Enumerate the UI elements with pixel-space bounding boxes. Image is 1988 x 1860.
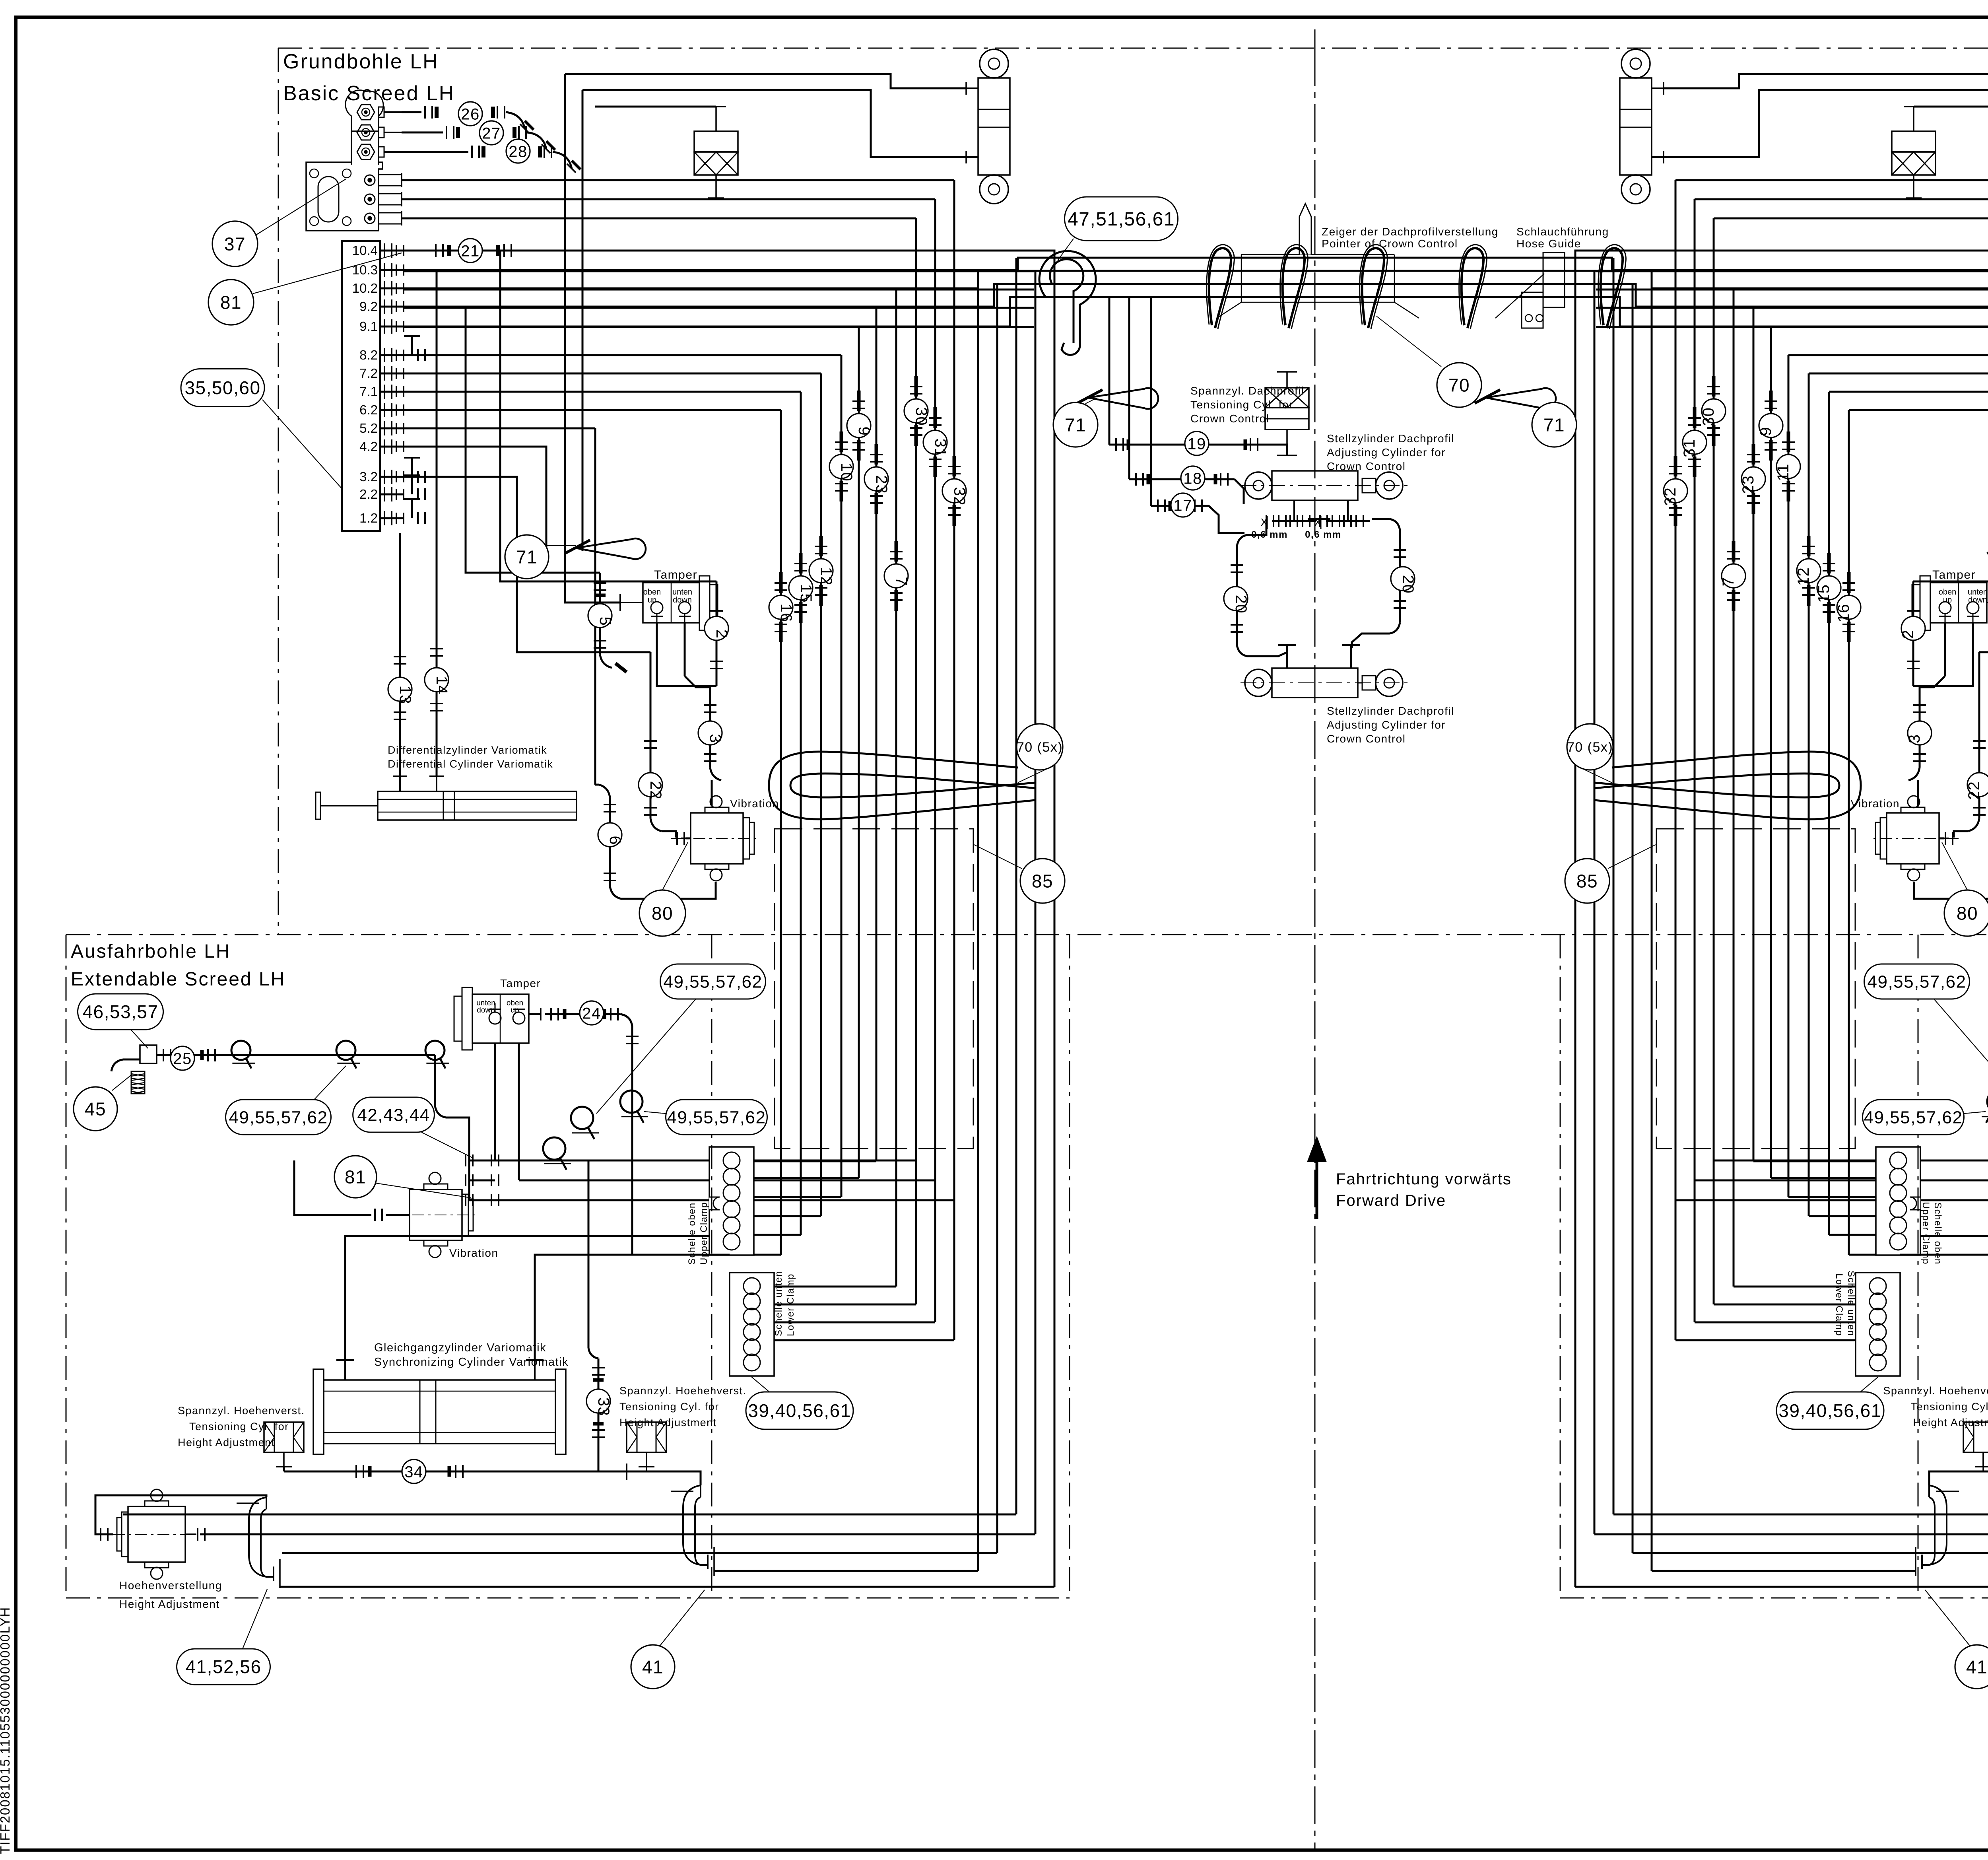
svg-text:Vibration: Vibration	[730, 797, 779, 810]
loop clamps	[543, 1137, 565, 1160]
callout 70	[1437, 363, 1481, 407]
callout 71 centre	[1053, 402, 1098, 447]
svg-text:70: 70	[1448, 375, 1470, 396]
svg-text:Spannzyl. Hoehenverst.: Spannzyl. Hoehenverst.	[1883, 1385, 1988, 1397]
callout 49,55,57,62 a	[226, 1100, 331, 1135]
svg-text:2: 2	[1899, 630, 1917, 639]
svg-text:Hose Guide: Hose Guide	[1516, 237, 1581, 250]
svg-text:32: 32	[1662, 487, 1679, 506]
svg-text:Upper Clamp: Upper Clamp	[1920, 1202, 1931, 1265]
svg-text:71: 71	[1543, 415, 1565, 435]
svg-text:Crown Control: Crown Control	[1190, 412, 1269, 425]
svg-text:23: 23	[873, 475, 890, 494]
svg-text:Tensioning Cyl. for: Tensioning Cyl. for	[189, 1421, 289, 1432]
svg-text:Spannzyl. Hoehenverst.: Spannzyl. Hoehenverst.	[178, 1405, 305, 1417]
callout 41	[631, 1645, 675, 1689]
Spannzyl. Hoehenverst. tensioning cylinder left	[264, 1422, 304, 1452]
svg-text:Upper Clamp: Upper Clamp	[699, 1202, 709, 1265]
callouts 26 27 28	[458, 102, 482, 126]
svg-text:4.2: 4.2	[359, 439, 378, 454]
svg-text:Tamper: Tamper	[500, 977, 541, 989]
dashed region 85 right	[1656, 829, 1855, 1149]
svg-text:49,55,57,62: 49,55,57,62	[667, 1108, 766, 1127]
svg-text:7.1: 7.1	[359, 384, 378, 399]
hose 5	[599, 573, 601, 654]
hose 33	[588, 1160, 590, 1348]
svg-text:up: up	[648, 596, 656, 604]
svg-text:3.2: 3.2	[359, 469, 378, 484]
hose fittings with callouts 16 15 12 10 23 9 7 30 31 32	[775, 582, 787, 584]
svg-text:27: 27	[482, 124, 501, 142]
svg-text:1.2: 1.2	[359, 511, 378, 525]
hose 17	[1151, 505, 1209, 507]
callout 47,51,56,61	[1065, 197, 1178, 241]
svg-text:Adjusting Cylinder for: Adjusting Cylinder for	[1327, 446, 1446, 459]
svg-text:14: 14	[433, 676, 450, 695]
svg-text:7.2: 7.2	[359, 366, 378, 381]
svg-text:5.2: 5.2	[359, 421, 378, 435]
svg-text:Height Adjustment: Height Adjustment	[619, 1417, 717, 1429]
svg-text:0,6 mm: 0,6 mm	[1251, 529, 1288, 540]
svg-text:49,55,57,62: 49,55,57,62	[1864, 1108, 1963, 1127]
svg-text:Forward Drive: Forward Drive	[1336, 1192, 1446, 1209]
hose 19	[1109, 444, 1264, 446]
svg-text:down: down	[673, 596, 692, 604]
svg-text:X: X	[1261, 516, 1268, 528]
svg-text:80: 80	[1957, 903, 1978, 924]
callout 37 / 38	[212, 221, 258, 266]
svg-text:up: up	[1943, 596, 1952, 604]
hose slack teardrop loop 70(5x)	[769, 752, 1035, 819]
svg-text:23: 23	[1739, 475, 1757, 494]
svg-text:10.2: 10.2	[352, 281, 378, 295]
svg-text:Gleichgangzylinder Variomatik: Gleichgangzylinder Variomatik	[374, 1341, 546, 1354]
svg-text:80: 80	[652, 903, 673, 924]
hose clip 71 centre pair	[1088, 388, 1158, 409]
svg-text:Crown Control: Crown Control	[1327, 733, 1406, 745]
17/18/19 riser-hose group left	[1109, 297, 1309, 533]
staircase lines to adjusting cylinder	[565, 74, 966, 88]
callout 81 extendable screed	[334, 1156, 377, 1198]
svg-text:2.2: 2.2	[359, 487, 378, 501]
callout 49,55,57,62 c	[666, 1100, 767, 1135]
svg-text:3: 3	[1906, 734, 1923, 744]
svg-text:19: 19	[1187, 435, 1206, 453]
svg-text:Zeiger der Dachprofilverstellu: Zeiger der Dachprofilverstellung	[1322, 225, 1499, 238]
Spannzyl. Bohlenabknickung tensioning cylinder symbol	[715, 107, 717, 131]
svg-text:Schelle unten: Schelle unten	[1846, 1271, 1856, 1336]
callout 71 quadrant	[505, 535, 549, 579]
hose 13	[399, 533, 401, 776]
svg-text:7: 7	[893, 577, 910, 587]
svg-text:0,6 mm: 0,6 mm	[1305, 529, 1342, 540]
Schelle unten lower clamp strip	[730, 1273, 774, 1376]
svg-text:Pointer of Crown Control: Pointer of Crown Control	[1322, 237, 1458, 250]
svg-text:2: 2	[713, 630, 730, 639]
svg-text:Tamper: Tamper	[1932, 568, 1976, 581]
svg-text:Vibration: Vibration	[449, 1247, 499, 1259]
svg-text:24: 24	[582, 1005, 601, 1022]
svg-text:unten: unten	[672, 588, 692, 597]
svg-text:Spannzyl. Hoehenverst.: Spannzyl. Hoehenverst.	[619, 1385, 747, 1397]
svg-text:Basic Screed LH: Basic Screed LH	[283, 82, 455, 105]
svg-text:34: 34	[404, 1463, 423, 1481]
svg-text:oben: oben	[1939, 588, 1957, 597]
svg-text:X: X	[1314, 516, 1322, 528]
hose 24	[529, 1013, 541, 1015]
svg-text:Ausfahrbohle LH: Ausfahrbohle LH	[71, 941, 231, 962]
svg-text:3: 3	[707, 734, 724, 744]
Stellzylinder Bohlenabknickung adjusting cylinder	[980, 49, 1008, 78]
svg-text:32: 32	[951, 487, 968, 506]
callout 41,52,56	[177, 1649, 270, 1685]
svg-text:30: 30	[1700, 407, 1717, 426]
hose manifold with ports 10.4-1.2	[342, 241, 380, 531]
svg-text:6: 6	[606, 836, 624, 845]
svg-text:down: down	[477, 1006, 495, 1015]
svg-text:Spannzyl. Dachprofil: Spannzyl. Dachprofil	[1190, 385, 1305, 397]
svg-text:30: 30	[912, 407, 930, 426]
svg-text:81: 81	[345, 1167, 366, 1188]
svg-text:15: 15	[1815, 584, 1833, 603]
hose 22 feeder	[404, 477, 650, 652]
Stellzylinder Dachprofil adjusting cylinder lower	[1245, 669, 1272, 696]
svg-text:Lower Clamp: Lower Clamp	[785, 1273, 796, 1336]
svg-text:7: 7	[1720, 577, 1737, 587]
svg-text:Tamper: Tamper	[654, 568, 697, 581]
svg-text:13: 13	[396, 686, 414, 705]
svg-text:TIFF20081015.110553000000000LY: TIFF20081015.110553000000000LYH	[0, 1607, 12, 1854]
orifice T-fittings 0,6 mm	[1286, 645, 1288, 668]
hose 20 left drop	[1247, 519, 1266, 535]
callout 24	[580, 1001, 604, 1025]
callout 70 (5x) left	[1017, 724, 1063, 770]
svg-text:15: 15	[797, 584, 815, 603]
hoses 26 27 28	[402, 111, 421, 113]
svg-text:Differential Cylinder Variomat: Differential Cylinder Variomatik	[388, 758, 553, 770]
svg-text:Height Adjustment: Height Adjustment	[119, 1598, 220, 1610]
svg-text:70 (5x): 70 (5x)	[1567, 740, 1613, 755]
svg-text:17: 17	[1173, 497, 1192, 514]
svg-text:down: down	[1968, 596, 1987, 604]
svg-text:Schelle oben: Schelle oben	[687, 1202, 697, 1265]
vibration motor (extendable screed)	[410, 1189, 462, 1240]
svg-text:8.2: 8.2	[359, 348, 378, 362]
svg-text:22: 22	[647, 781, 664, 800]
dashed region 85 left	[775, 829, 973, 1149]
forward drive arrow	[1316, 1159, 1318, 1219]
svg-text:Height Adjustment: Height Adjustment	[1913, 1417, 1988, 1429]
svg-text:39,40,56,61: 39,40,56,61	[748, 1400, 851, 1421]
svg-text:Stellzylinder Dachprofil: Stellzylinder Dachprofil	[1327, 432, 1454, 445]
hex-port bracket arm (item 37/38)	[346, 90, 383, 165]
svg-text:9.1: 9.1	[359, 319, 378, 334]
port hose runs and vertical risers	[953, 180, 955, 1340]
svg-text:Height Adjustment: Height Adjustment	[178, 1436, 275, 1448]
callout 46,53,57	[78, 994, 163, 1030]
svg-text:Tensioning Cyl. for: Tensioning Cyl. for	[1910, 1401, 1988, 1413]
svg-text:9: 9	[855, 427, 873, 436]
callout 49,55,57,62 b	[660, 964, 766, 999]
svg-text:Differentialzylinder Variomati: Differentialzylinder Variomatik	[388, 744, 547, 756]
inlet fitting with strainer (item 45)	[140, 1045, 157, 1063]
svg-text:Tensioning Cyl. for: Tensioning Cyl. for	[619, 1401, 719, 1413]
svg-text:Tensioning Cyl. for: Tensioning Cyl. for	[1190, 398, 1293, 411]
svg-text:20: 20	[1399, 575, 1417, 594]
hose 6	[609, 797, 611, 886]
svg-text:31: 31	[1681, 439, 1698, 458]
svg-text:47,51,56,61: 47,51,56,61	[1068, 209, 1175, 230]
svg-text:oben: oben	[643, 588, 661, 597]
T-fitting cluster	[469, 1160, 495, 1162]
svg-text:unten: unten	[1968, 588, 1988, 597]
Spannzyl. Hoehenverst. tensioning cylinder right	[627, 1422, 666, 1452]
hose 18	[1129, 478, 1235, 480]
svg-text:85: 85	[1032, 871, 1053, 892]
S-bend pipe left (item 41)	[249, 1497, 274, 1577]
tamper stems and hose 2	[657, 623, 716, 686]
svg-text:10.4: 10.4	[352, 243, 378, 258]
svg-text:45: 45	[85, 1099, 106, 1119]
tamper valve block (basic screed)	[643, 583, 699, 623]
Gleichgangzylinder synchronizing cylinder	[313, 1369, 324, 1454]
svg-text:5: 5	[596, 617, 614, 626]
callout 39,40,56,61	[746, 1392, 853, 1429]
callouts 85	[1020, 859, 1065, 903]
svg-text:Lower Clamp: Lower Clamp	[1834, 1273, 1844, 1336]
hose 25 with loop clamps	[157, 1054, 435, 1056]
svg-text:49,55,57,62: 49,55,57,62	[664, 972, 763, 991]
svg-text:Schelle oben: Schelle oben	[1932, 1202, 1943, 1265]
svg-text:42,43,44: 42,43,44	[357, 1105, 430, 1125]
callout 35,50,60 / 36,50,60	[181, 369, 264, 407]
S-bend pipe right (item 41,52,56)	[683, 1485, 708, 1565]
differential cylinder Variomatik	[378, 791, 577, 820]
svg-text:22: 22	[1965, 781, 1983, 800]
tamper valve block (extendable screed)	[472, 994, 529, 1043]
hose guide bracket	[1543, 253, 1565, 307]
svg-text:31: 31	[932, 439, 949, 458]
svg-text:Vibration: Vibration	[1850, 797, 1900, 810]
svg-text:Schelle unten: Schelle unten	[773, 1271, 784, 1336]
svg-text:6.2: 6.2	[359, 402, 378, 417]
svg-text:11: 11	[1774, 463, 1792, 481]
svg-text:9: 9	[1757, 427, 1774, 436]
svg-text:12: 12	[1795, 567, 1812, 586]
height adjustment motor	[128, 1506, 185, 1562]
svg-text:Stellzylinder Dachprofil: Stellzylinder Dachprofil	[1327, 705, 1454, 717]
svg-text:81: 81	[220, 292, 242, 313]
svg-text:16: 16	[777, 604, 795, 623]
svg-text:21: 21	[461, 242, 480, 260]
svg-text:12: 12	[817, 567, 835, 586]
svg-text:41,52,56: 41,52,56	[185, 1656, 261, 1677]
svg-text:71: 71	[1065, 415, 1086, 435]
hose 34	[283, 1467, 285, 1471]
svg-text:9.2: 9.2	[359, 299, 378, 314]
callout 80	[639, 890, 685, 936]
svg-text:41: 41	[1966, 1657, 1988, 1677]
callout 42,43,44	[353, 1097, 435, 1132]
callout 21	[458, 239, 482, 262]
svg-text:70 (5x): 70 (5x)	[1017, 740, 1063, 755]
svg-text:10.3: 10.3	[352, 262, 378, 277]
svg-text:16: 16	[1835, 604, 1852, 623]
svg-text:Fahrtrichtung vorwärts: Fahrtrichtung vorwärts	[1336, 1170, 1512, 1188]
svg-text:33: 33	[595, 1397, 612, 1417]
hose 3	[685, 676, 710, 698]
omega hose loop (47,51,56,61)	[1033, 251, 1096, 355]
pointer of crown control	[1299, 204, 1311, 255]
Stellzylinder Dachprofil adjusting cylinder upper	[1245, 472, 1272, 499]
callout 25	[171, 1046, 194, 1070]
svg-text:Adjusting Cylinder for: Adjusting Cylinder for	[1327, 719, 1446, 731]
svg-text:up: up	[511, 1006, 519, 1015]
Schelle oben upper clamp strip	[709, 1147, 754, 1255]
svg-text:71: 71	[516, 547, 538, 568]
svg-text:Schlauchführung: Schlauchführung	[1516, 225, 1609, 238]
hose 20 right drop	[1372, 518, 1390, 520]
svg-text:26: 26	[461, 105, 480, 123]
svg-text:Synchronizing Cylinder Varioma: Synchronizing Cylinder Variomatik	[374, 1356, 569, 1368]
vibration motor (basic screed)	[691, 813, 743, 864]
svg-text:25: 25	[173, 1050, 192, 1067]
callout 81	[208, 280, 254, 325]
callout 45	[74, 1087, 117, 1131]
svg-text:39,40,56,61: 39,40,56,61	[1778, 1400, 1882, 1421]
region boxes dash-dot borders	[278, 48, 1988, 49]
hose bundle across centre	[1034, 257, 1612, 259]
svg-text:35,50,60: 35,50,60	[184, 377, 260, 398]
svg-text:41: 41	[642, 1657, 664, 1677]
mounting plate with oval hole	[306, 131, 382, 231]
callout 33	[586, 1389, 610, 1413]
svg-text:46,53,57: 46,53,57	[82, 1001, 158, 1022]
svg-text:Grundbohle LH: Grundbohle LH	[283, 50, 439, 73]
svg-text:18: 18	[1183, 470, 1202, 487]
svg-text:20: 20	[1232, 595, 1250, 614]
svg-text:49,55,57,62: 49,55,57,62	[1868, 972, 1967, 991]
hose 14	[436, 270, 438, 776]
risers to hoses 17 18 19	[1109, 297, 1110, 445]
centre fold line	[1314, 29, 1316, 48]
svg-text:Extendable Screed LH: Extendable Screed LH	[71, 969, 285, 990]
Spannzyl. Dachprofil tensioning cylinder	[1286, 372, 1288, 388]
svg-text:Hoehenverstellung: Hoehenverstellung	[119, 1579, 222, 1592]
svg-text:49,55,57,62: 49,55,57,62	[229, 1108, 328, 1127]
svg-text:Crown Control: Crown Control	[1327, 460, 1406, 472]
svg-text:28: 28	[509, 143, 528, 160]
svg-text:10: 10	[838, 463, 855, 482]
svg-text:85: 85	[1576, 871, 1598, 892]
svg-text:37: 37	[224, 234, 246, 255]
callout 34	[402, 1460, 426, 1483]
